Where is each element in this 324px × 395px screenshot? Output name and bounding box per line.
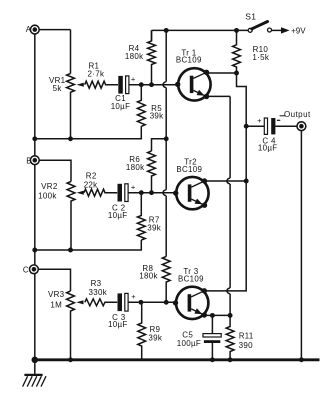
label C (23, 265, 29, 274)
plus sign C2 (131, 182, 136, 191)
potentiometer VR2 track (67, 182, 75, 251)
wire rail line down (163, 30, 166, 138)
label S1 (245, 11, 256, 21)
svg-text:1M: 1M (50, 301, 62, 310)
wiper arrow VR2 (77, 191, 84, 195)
svg-text:+: + (257, 116, 262, 125)
label R6 180k (126, 155, 145, 172)
svg-text:+: + (131, 74, 136, 83)
transistor Tr1 BC109 (175, 68, 211, 100)
label R8 180k (139, 264, 158, 280)
label C3 10uF (108, 313, 128, 329)
svg-text:180k: 180k (126, 163, 145, 172)
svg-text:+: + (131, 292, 136, 301)
wiper arrow VR1 (77, 83, 84, 87)
node rail-R10 (234, 28, 239, 33)
wire C3 to Tr3 base (128, 301, 177, 303)
ground symbol (23, 357, 46, 387)
svg-text:10µF: 10µF (258, 144, 278, 153)
plus sign C4 (257, 116, 262, 125)
label C5 100uF (177, 331, 201, 348)
svg-text:A: A (26, 25, 32, 34)
label R9 39k (148, 325, 162, 343)
label VR1 5k (49, 76, 66, 93)
label Tr2 BC109 (176, 157, 202, 173)
label C4 10uF (258, 137, 278, 153)
node rail-railline (164, 28, 169, 33)
label C2 10uF (108, 204, 128, 220)
svg-text:R11: R11 (239, 331, 254, 340)
switch S1 (248, 22, 271, 33)
label +9V (291, 26, 306, 35)
transistor Tr3 BC109 (173, 287, 209, 319)
svg-text:S1: S1 (245, 11, 256, 21)
node VR3 ground (68, 357, 73, 362)
resistor R8 (162, 257, 170, 303)
svg-text:BC109: BC109 (176, 165, 202, 174)
node railline-tie (164, 136, 169, 141)
svg-text:BC109: BC109 (176, 56, 202, 65)
svg-text:10µF: 10µF (108, 320, 128, 329)
node R11 ground (228, 357, 233, 362)
transistor Tr2 BC109 (173, 177, 209, 209)
wire C2 to Tr2 base (128, 192, 178, 194)
node rail-R4 (151, 30, 153, 41)
svg-text:+9V: +9V (291, 26, 306, 35)
wire output ground drop (300, 130, 302, 359)
resistor R4 (148, 30, 156, 84)
plus sign C1 (131, 74, 136, 83)
svg-text:10µF: 10µF (111, 102, 131, 111)
svg-text:100k: 100k (38, 191, 57, 200)
svg-text:330k: 330k (89, 288, 108, 297)
svg-text:BC109: BC109 (178, 274, 204, 283)
wire Tr1 collector to R10 (207, 72, 237, 74)
svg-text:39k: 39k (150, 112, 164, 121)
svg-text:1·5k: 1·5k (252, 53, 269, 62)
node tie1-VR1 (68, 136, 73, 141)
resistor R3 (85, 299, 117, 306)
wire to +9V arrow (272, 27, 290, 33)
label R2 22k (84, 171, 98, 189)
resistor R11 (226, 315, 234, 359)
svg-text:2·7k: 2·7k (88, 70, 105, 79)
resistor R9 (138, 302, 146, 360)
node emitter3-C5 (210, 313, 215, 318)
label R1 2-7k (88, 62, 105, 79)
node emitter3-bus (228, 313, 233, 318)
wire C4 junction to cap (246, 125, 264, 127)
svg-text:5k: 5k (53, 84, 63, 93)
label Output (280, 110, 311, 119)
svg-text:22k: 22k (84, 181, 98, 190)
wire Tr3 emitter (204, 314, 230, 316)
svg-text:VR2: VR2 (41, 182, 58, 191)
label R5 39k (150, 104, 164, 121)
wire B to VR2 top (39, 160, 71, 181)
label R3 330k (89, 279, 108, 297)
svg-text:100µF: 100µF (177, 339, 201, 348)
node collector1-R10 (234, 71, 239, 76)
terminal Output socket (297, 122, 306, 131)
resistor R5 (35, 85, 145, 139)
capacitor C4 (264, 118, 275, 134)
potentiometer VR1 track (67, 74, 75, 139)
resistor R7 (35, 193, 145, 250)
label Tr1 BC109 (176, 48, 202, 64)
svg-text:R3: R3 (91, 279, 102, 288)
resistor R1 (85, 81, 118, 88)
wire +9V rail (152, 29, 249, 31)
wire C to VR3 top (38, 269, 71, 291)
node base2-R7 (139, 190, 144, 195)
node base2-R6 (149, 190, 154, 195)
svg-text:39k: 39k (147, 223, 161, 232)
node output ground on bus (299, 357, 304, 362)
node C5 ground (210, 357, 215, 362)
wiper arrow VR3 (76, 300, 83, 304)
svg-text:180k: 180k (139, 272, 158, 281)
svg-text:B: B (26, 156, 32, 165)
node collector bus Tr2 (244, 179, 249, 184)
wire rail branch to R6 (152, 139, 167, 151)
plus sign C3 (131, 292, 136, 301)
label VR2 100k (38, 182, 58, 200)
wire emitter bus down (227, 96, 230, 315)
svg-text:C: C (23, 265, 29, 274)
svg-text:390: 390 (239, 341, 253, 350)
label B (26, 156, 32, 165)
wire C4 to output (275, 125, 297, 127)
wire C1 to Tr1 base (129, 84, 178, 86)
wire Tr1 emitter to emitter bus (207, 95, 231, 97)
svg-text:39k: 39k (148, 334, 162, 343)
minus sign C4 (277, 119, 280, 121)
node base3-R8 (164, 300, 169, 305)
resistor R6 (148, 151, 156, 193)
wire collector bus (206, 73, 246, 291)
label R11 390 (239, 331, 254, 350)
node tie2-VR2 (68, 248, 73, 253)
capacitor C1 (118, 76, 129, 94)
label A (26, 25, 32, 34)
capacitor C2 (118, 184, 129, 202)
terminal A input socket (30, 25, 39, 34)
capacitor C5 (203, 315, 221, 359)
terminal C input socket (30, 265, 39, 274)
node tie2-spine (32, 248, 37, 253)
resistor R10 (233, 30, 241, 73)
resistor R2 (84, 189, 117, 196)
wire rail line down 2 (163, 139, 166, 257)
label Tr3 BC109 (178, 267, 204, 283)
node tie1-spine (32, 136, 37, 141)
wire Tr2 collector to bus (205, 180, 247, 182)
svg-text:+: + (131, 182, 136, 191)
label R7 39k (147, 215, 161, 232)
potentiometer VR3 track (67, 291, 75, 360)
label R10 1-5k (252, 45, 269, 62)
svg-text:Output: Output (284, 110, 311, 119)
label R4 180k (125, 44, 144, 61)
node base1-R4 (149, 82, 154, 87)
wire input ground spine A-B-C to ground bus (34, 30, 36, 360)
svg-text:VR3: VR3 (48, 290, 65, 299)
node collector bus C4 (244, 124, 249, 129)
capacitor C3 (118, 293, 129, 311)
label VR3 1M (48, 290, 65, 310)
terminal B input socket (30, 156, 39, 165)
label C1 10uF (111, 94, 131, 111)
svg-text:R2: R2 (86, 171, 97, 180)
svg-text:10µF: 10µF (108, 211, 128, 220)
ground bus (35, 358, 320, 361)
node base1-R5 (139, 82, 144, 87)
wire A to VR1 top (39, 30, 71, 74)
node base3-R9 (138, 300, 143, 305)
svg-text:180k: 180k (125, 52, 144, 61)
